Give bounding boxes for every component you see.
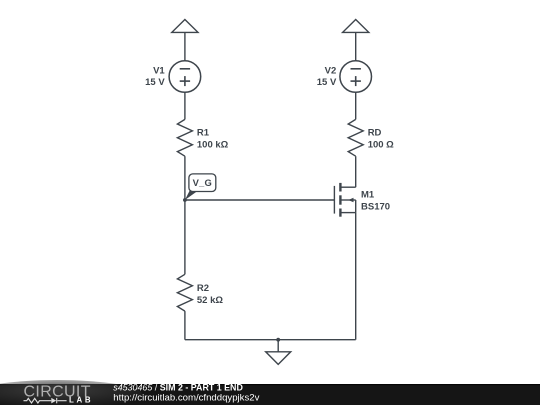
svg-text:V1: V1 [153, 66, 165, 77]
ground [266, 352, 291, 365]
CircuitLab logo [24, 384, 91, 405]
label R1 100 kΩ [197, 127, 229, 150]
svg-text:s4530465 / SIM 2 - PART 1 END: s4530465 / SIM 2 - PART 1 END [113, 383, 243, 393]
voltage source V1 [169, 61, 201, 93]
junction: ground node dot [276, 338, 280, 342]
label RD 100 Ω [368, 127, 394, 150]
resistor R1 [177, 119, 192, 156]
wire: V2 to RD [355, 92, 357, 119]
wire: bottom rail [185, 339, 356, 341]
svg-text:15 V: 15 V [317, 77, 337, 88]
wire: M1 source to bottom rail [355, 213, 357, 340]
svg-text:V2: V2 [325, 66, 337, 77]
svg-text:RD: RD [368, 127, 382, 138]
voltage source V2 [340, 61, 372, 93]
wire: RD to drain of M1 [355, 156, 357, 187]
svg-text:R2: R2 [197, 283, 209, 294]
svg-text:M1: M1 [361, 190, 375, 201]
svg-text:http://circuitlab.com/cfnddqyp: http://circuitlab.com/cfnddqypjks2v [113, 393, 259, 404]
transistor M1 (NMOS BS170) [334, 183, 355, 217]
resistor R2 [177, 274, 192, 311]
svg-text:100 Ω: 100 Ω [368, 139, 394, 150]
net label V_G [185, 174, 216, 200]
wire: right flag to V2 [355, 32, 357, 60]
label R2 52 kΩ [197, 283, 223, 306]
label V2 15 V [317, 66, 337, 89]
label M1 BS170 [361, 190, 390, 213]
wire: left flag to V1 [184, 32, 186, 60]
svg-text:R1: R1 [197, 127, 210, 138]
junction: node V_G dot [183, 198, 187, 202]
resistor RD [348, 119, 363, 156]
svg-text:52 kΩ: 52 kΩ [197, 295, 223, 306]
footer text line 1 [113, 383, 243, 393]
label V1 15 V [145, 66, 165, 89]
svg-text:V_G: V_G [193, 177, 212, 188]
power flag (right VCC) [343, 20, 369, 33]
svg-text:LAB: LAB [69, 396, 91, 405]
wire: node V_G to gate of M1 [185, 199, 335, 201]
footer text line 2 [113, 393, 259, 404]
wire: V1 to R1 [184, 92, 186, 119]
wire: R2 to bottom rail [184, 311, 186, 340]
power flag (left VCC) [172, 20, 198, 33]
svg-text:15 V: 15 V [145, 77, 165, 88]
svg-text:BS170: BS170 [361, 202, 390, 213]
wire: R1 to node V_G [184, 156, 186, 200]
CircuitLab footer bar [0, 380, 540, 405]
wire: node to ground [277, 340, 279, 352]
wire: node V_G to R2 [184, 200, 186, 274]
svg-text:100 kΩ: 100 kΩ [197, 139, 229, 150]
